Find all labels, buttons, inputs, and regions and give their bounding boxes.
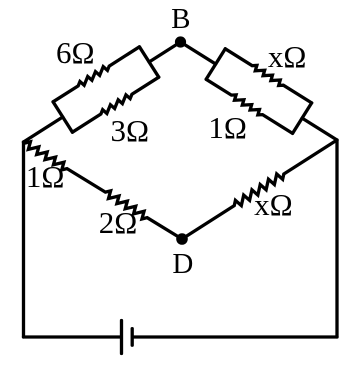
svg-text:1Ω: 1Ω	[26, 159, 65, 194]
svg-text:1Ω: 1Ω	[208, 110, 247, 145]
svg-text:B: B	[171, 3, 190, 35]
svg-text:D: D	[172, 248, 193, 280]
svg-text:6Ω: 6Ω	[56, 35, 95, 70]
svg-text:xΩ: xΩ	[254, 187, 293, 222]
svg-text:3Ω: 3Ω	[111, 113, 150, 148]
svg-text:2Ω: 2Ω	[99, 205, 138, 240]
svg-text:xΩ: xΩ	[268, 39, 307, 74]
